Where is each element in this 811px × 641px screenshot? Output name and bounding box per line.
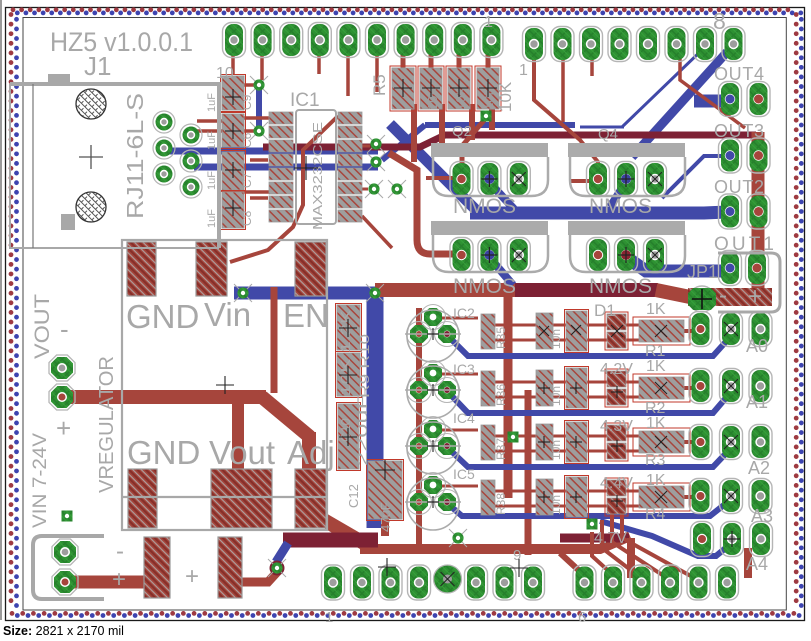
window left edge line bbox=[0, 0, 2, 620]
capacitor C15 row3 bbox=[481, 425, 495, 460]
resistor R8 bbox=[477, 68, 499, 109]
svg-text:R1: R1 bbox=[645, 343, 666, 360]
via V9 bbox=[268, 559, 286, 577]
svg-text:1uF: 1uF bbox=[206, 171, 218, 190]
resistor R9 bbox=[337, 305, 360, 350]
wire Vout pad riser red bbox=[232, 397, 244, 470]
resistor R36 bbox=[536, 370, 553, 406]
via V6 bbox=[388, 180, 406, 198]
resistor R1 bbox=[639, 320, 684, 342]
header OUT1 pads bbox=[719, 251, 742, 286]
svg-text:10n: 10n bbox=[549, 329, 563, 349]
resistor R6 bbox=[420, 68, 442, 109]
svg-text:OUT1: OUT1 bbox=[714, 234, 774, 255]
wire red A-bus vertical 1 bbox=[504, 292, 513, 498]
transistor IC5 pads bbox=[407, 490, 432, 515]
header A3 pads bbox=[689, 479, 712, 514]
svg-text:Vin: Vin bbox=[204, 296, 251, 333]
wire red Q1 pad link bbox=[426, 176, 456, 180]
svg-text:R4: R4 bbox=[645, 506, 666, 523]
header OUT2 pads bbox=[719, 194, 742, 229]
capacitor C16 row4 bbox=[481, 480, 495, 515]
header J2 top row pins 1-10 bbox=[223, 23, 246, 58]
connector VOUT pads bbox=[49, 355, 75, 381]
svg-text:+: + bbox=[56, 413, 71, 443]
svg-text:NMOS: NMOS bbox=[453, 275, 516, 298]
wire blue row A0 bbox=[448, 336, 731, 356]
header A2 pads bbox=[689, 425, 712, 460]
resistor R12 bbox=[566, 368, 587, 408]
diode D2 bbox=[607, 371, 626, 387]
red dotted keepout left bbox=[9, 15, 14, 611]
wire blue under C12 vertical bbox=[367, 292, 384, 528]
transistor IC5 outline bbox=[405, 478, 461, 530]
svg-text:10K: 10K bbox=[425, 87, 440, 110]
capacitor C8 bbox=[222, 192, 244, 228]
svg-text:Size: 2821 x 2170 mil: Size: 2821 x 2170 mil bbox=[3, 624, 124, 638]
svg-text:GND: GND bbox=[126, 298, 199, 335]
resistor R4 bbox=[639, 486, 684, 508]
wire red fan to bottom header bbox=[592, 504, 698, 582]
svg-text:1K: 1K bbox=[646, 415, 666, 432]
svg-text:R5: R5 bbox=[370, 74, 389, 96]
mark resistor crosses bbox=[427, 325, 667, 508]
op-amp IC1 right pads bbox=[338, 112, 362, 222]
wire red JP1 band bbox=[690, 290, 764, 297]
svg-text:GND: GND bbox=[127, 434, 200, 471]
wire red gate Q2 bbox=[534, 50, 598, 176]
transistor IC3 pads bbox=[407, 378, 432, 403]
wire red TO92 column vertical bbox=[416, 308, 422, 552]
svg-text:4.4V: 4.4V bbox=[600, 475, 633, 492]
svg-text:OUT3: OUT3 bbox=[714, 121, 764, 141]
regulator pad Vin bbox=[196, 242, 227, 296]
svg-text:4.7V: 4.7V bbox=[594, 530, 627, 547]
mark plus J1 center bbox=[79, 145, 103, 169]
wire red RJ11 thin links bbox=[195, 52, 269, 198]
transistor IC2 pads bbox=[407, 322, 432, 347]
header OUT4 pads bbox=[719, 82, 742, 117]
via V11 bbox=[234, 284, 252, 302]
resistor R14 bbox=[566, 477, 587, 517]
transistor IC2 outline bbox=[405, 310, 461, 362]
wire blue Q2 gate stub bbox=[610, 182, 626, 207]
pad JP1 screw bbox=[688, 286, 716, 312]
transistor Q1 pads bbox=[450, 162, 473, 197]
svg-text:Vout: Vout bbox=[209, 434, 275, 471]
capacitor C12 bbox=[368, 461, 402, 519]
transistor IC4 pads bbox=[407, 434, 432, 459]
svg-text:A0: A0 bbox=[746, 336, 768, 356]
wire blue B1 horizontal bbox=[234, 287, 378, 300]
svg-text:1K: 1K bbox=[646, 358, 666, 375]
wire blue mid horizontal right bbox=[580, 126, 624, 129]
capacitor C7 bbox=[222, 152, 244, 190]
wire blue upper horizontal bbox=[425, 122, 575, 128]
svg-text:8: 8 bbox=[713, 8, 726, 34]
wire VOUT thick red horizontal bbox=[66, 390, 266, 404]
capacitor C14 row2 bbox=[481, 371, 495, 406]
svg-text:IC2: IC2 bbox=[453, 305, 475, 321]
transistor Q3 pads bbox=[450, 238, 473, 273]
header J5 bottom row pins bbox=[573, 565, 596, 600]
transistor IC3 outline bbox=[405, 366, 461, 418]
svg-text:1uF: 1uF bbox=[206, 131, 218, 150]
wire blue OUT4 stub bbox=[694, 95, 726, 108]
regulator pad GND bottom bbox=[128, 469, 157, 528]
red dotted keepout top bbox=[13, 7, 796, 12]
svg-text:IC4: IC4 bbox=[453, 410, 475, 426]
svg-text:+: + bbox=[112, 566, 126, 593]
svg-text:C9: C9 bbox=[240, 94, 254, 110]
capacitor C13 row1 bbox=[481, 314, 495, 349]
VIN trace pad 2 bbox=[218, 537, 242, 598]
hole H1 bbox=[76, 89, 106, 119]
resistor R2 bbox=[639, 377, 684, 399]
header J4 bottom row pins 1-8 bbox=[322, 565, 345, 600]
svg-text:EN: EN bbox=[283, 297, 329, 334]
svg-text:R3: R3 bbox=[645, 452, 666, 469]
resistor R13 bbox=[566, 422, 587, 462]
transistor Q1 outline bbox=[431, 143, 548, 196]
wire red bottom verticals bbox=[631, 538, 748, 578]
wire blue row A1 bbox=[448, 392, 731, 413]
via V14 bbox=[587, 519, 598, 530]
svg-text:R36: R36 bbox=[494, 384, 508, 406]
resistor R10 bbox=[337, 353, 360, 396]
wire blue Q3 stub bbox=[489, 257, 513, 285]
wire maroon M1 top bbox=[263, 135, 756, 147]
svg-text:Q2: Q2 bbox=[452, 123, 472, 140]
wire red diagonal to bottom bbox=[310, 512, 367, 545]
wire red VIN link bbox=[240, 570, 279, 582]
via V7 bbox=[481, 111, 492, 122]
transistor Q4 outline bbox=[568, 221, 685, 272]
svg-text:IC5: IC5 bbox=[453, 466, 475, 482]
svg-text:10: 10 bbox=[216, 65, 234, 82]
hole H2 bbox=[76, 192, 106, 222]
svg-text:10n: 10n bbox=[549, 440, 563, 460]
red dotted keepout right bbox=[794, 15, 799, 611]
svg-text:IC1: IC1 bbox=[290, 90, 320, 111]
svg-text:OUT2: OUT2 bbox=[714, 177, 764, 197]
svg-text:A4: A4 bbox=[746, 554, 768, 574]
svg-text:1: 1 bbox=[325, 609, 333, 626]
connector J1 RJ11 pads bbox=[153, 111, 175, 133]
wire blue row A2 bbox=[448, 448, 731, 467]
svg-text:R37: R37 bbox=[494, 438, 508, 460]
capacitor C10 bbox=[338, 404, 359, 469]
wire blue Q1 gate stub bbox=[489, 182, 514, 209]
resistor R38 bbox=[536, 479, 553, 515]
wire maroon A4 band bbox=[560, 534, 629, 543]
regulator pad EN bbox=[295, 242, 326, 296]
svg-text:IC3: IC3 bbox=[453, 361, 475, 377]
svg-text:1uF: 1uF bbox=[206, 93, 218, 112]
wire red resistor risers top bbox=[403, 42, 488, 70]
JP1 bracket bbox=[718, 253, 780, 312]
via V5 bbox=[365, 180, 383, 198]
resistor R7 bbox=[448, 68, 470, 109]
resistor R3 bbox=[639, 431, 684, 453]
transistor Q3 outline bbox=[431, 221, 548, 272]
svg-text:-: - bbox=[719, 282, 727, 309]
svg-text:220uF: 220uF bbox=[354, 394, 370, 466]
svg-text:JP1: JP1 bbox=[687, 262, 718, 282]
wire red A-bus vertical 2 bbox=[525, 390, 532, 555]
svg-text:9: 9 bbox=[513, 547, 521, 564]
wire blue diag to via bbox=[382, 125, 425, 160]
transistor Q2 outline bbox=[568, 143, 685, 196]
capacitor C9 bbox=[222, 76, 244, 110]
svg-text:C8: C8 bbox=[240, 210, 254, 226]
via V13 bbox=[508, 432, 519, 443]
svg-text:OUT4: OUT4 bbox=[714, 64, 764, 84]
header A4 pads bbox=[691, 522, 714, 557]
wire thin blue diag to header pin bbox=[622, 48, 704, 127]
wire blue A4 path bbox=[600, 521, 733, 556]
pad big round bottom bbox=[434, 565, 462, 593]
svg-text:47uF: 47uF bbox=[378, 502, 393, 532]
blue dotted keepout right bbox=[799, 19, 804, 613]
blue dotted keepout bottom bbox=[17, 613, 801, 618]
VIN trace pad 1 bbox=[144, 537, 170, 598]
svg-text:Adj: Adj bbox=[287, 434, 335, 471]
svg-text:6: 6 bbox=[578, 609, 586, 626]
capacitor C6 bbox=[222, 114, 244, 147]
svg-text:10n: 10n bbox=[549, 495, 563, 515]
transistor Q2 pads bbox=[587, 162, 610, 197]
wire maroon NMOS row2 band bbox=[375, 283, 517, 297]
wire red gate Q1 bbox=[462, 118, 486, 172]
wire blue NMOS horizontal to OUT2 bbox=[470, 212, 727, 213]
via V10 bbox=[366, 284, 384, 302]
svg-text:C7: C7 bbox=[240, 172, 254, 188]
wire red header stubs bbox=[262, 54, 745, 248]
wire red OUT right vertical bbox=[752, 132, 765, 290]
via V12 bbox=[449, 529, 467, 547]
svg-text:-: - bbox=[60, 314, 69, 344]
diode D3 bbox=[607, 425, 626, 441]
svg-text:MAX3232CSE: MAX3232CSE bbox=[310, 122, 325, 230]
resistor R11 bbox=[566, 311, 587, 351]
svg-text:HZ5 v1.0.0.1: HZ5 v1.0.0.1 bbox=[50, 27, 193, 57]
connector J1 RJ11 outline bbox=[10, 84, 219, 248]
svg-text:1: 1 bbox=[484, 14, 493, 31]
svg-text:D1: D1 bbox=[594, 301, 616, 320]
wire thin blue OUT3 bbox=[662, 156, 726, 198]
svg-text:+: + bbox=[185, 563, 199, 590]
svg-text:10K: 10K bbox=[496, 81, 515, 112]
svg-text:R35: R35 bbox=[494, 327, 508, 349]
transistor IC4 outline bbox=[405, 422, 461, 474]
svg-text:10n: 10n bbox=[549, 386, 563, 406]
header A1 pads bbox=[689, 369, 712, 404]
svg-text:VREGULATOR: VREGULATOR bbox=[96, 356, 118, 493]
wire maroon band bottom left bbox=[283, 533, 378, 548]
svg-text:A1: A1 bbox=[746, 392, 768, 412]
svg-text:A2: A2 bbox=[748, 458, 770, 478]
svg-text:R2: R2 bbox=[645, 400, 666, 417]
via V4 bbox=[367, 153, 385, 171]
wire red left of NMOS1 bbox=[389, 153, 457, 254]
resistor R5 bbox=[392, 68, 414, 109]
regulator pad GND top bbox=[127, 242, 156, 296]
connector VIN bracket bbox=[33, 536, 104, 599]
wire red bottom horizontal bbox=[360, 536, 630, 549]
svg-text:4.2V: 4.2V bbox=[600, 361, 633, 378]
svg-text:NMOS: NMOS bbox=[589, 195, 652, 218]
via V8 bbox=[62, 511, 73, 522]
regulator outline bbox=[122, 240, 327, 530]
svg-text:Q4: Q4 bbox=[598, 126, 618, 143]
wire EN riser thick red vertical bbox=[302, 432, 316, 518]
regulator pad Adj bbox=[295, 469, 326, 528]
blue dotted keepout left bbox=[14, 19, 19, 613]
svg-text:-: - bbox=[116, 538, 124, 565]
svg-text:VIN 7-24V: VIN 7-24V bbox=[30, 433, 51, 528]
diode D1 bbox=[607, 314, 626, 330]
svg-text:1K: 1K bbox=[646, 301, 666, 318]
resistor R37 bbox=[536, 424, 553, 460]
header A0 pads bbox=[689, 312, 712, 347]
svg-text:C6: C6 bbox=[240, 132, 254, 148]
via V2 bbox=[250, 122, 268, 140]
op-amp IC1 outline bbox=[296, 110, 336, 224]
wire red resistor tails down bbox=[414, 104, 492, 162]
wire blue RJ11 row1 bbox=[167, 148, 378, 155]
svg-text:A3: A3 bbox=[751, 506, 773, 526]
blue dotted keepout top bbox=[17, 10, 801, 15]
wire blue row A3 bbox=[448, 501, 729, 516]
wire blue IC1 to NMOS big diagonal bbox=[390, 124, 480, 214]
wire blue OUT1 from Q4 bbox=[626, 257, 722, 271]
svg-text:C10: C10 bbox=[338, 418, 353, 442]
svg-text:VOUT: VOUT bbox=[31, 294, 54, 359]
JP1 hatched red zone bbox=[688, 288, 772, 306]
svg-text:J1: J1 bbox=[84, 51, 111, 81]
wire red R to A pads bbox=[684, 331, 700, 497]
svg-text:4.3V: 4.3V bbox=[600, 418, 633, 435]
wire red IC1 diagonal bbox=[230, 116, 338, 262]
svg-text:R38: R38 bbox=[494, 493, 508, 515]
diode D4 bbox=[607, 480, 626, 496]
svg-text:+: + bbox=[748, 283, 762, 310]
svg-text:NMOS: NMOS bbox=[453, 195, 516, 218]
via V3 bbox=[367, 135, 385, 153]
header J3 top row pins 1-8 bbox=[523, 27, 546, 62]
wire blue diag to OUT4 bbox=[632, 52, 727, 157]
regulator pad Vout bbox=[211, 469, 272, 528]
wire blue RJ11 row2 bbox=[194, 164, 378, 171]
wire blue via link bbox=[256, 88, 262, 128]
resistor R35 bbox=[536, 313, 553, 349]
svg-text:1K: 1K bbox=[646, 472, 666, 489]
svg-text:10K 1.2K: 10K 1.2K bbox=[338, 309, 353, 396]
wire blue diag to via bottom left bbox=[276, 543, 288, 562]
svg-text:R9 R10: R9 R10 bbox=[357, 334, 372, 398]
mark component crosses bbox=[216, 79, 528, 577]
svg-text:C12: C12 bbox=[346, 484, 361, 508]
svg-text:NMOS: NMOS bbox=[589, 275, 652, 298]
wire red bottom left diag bbox=[560, 553, 586, 577]
connector VIN pads bbox=[52, 539, 78, 565]
wire red row links A0 bbox=[495, 325, 640, 506]
transistor Q4 pads bbox=[587, 238, 610, 273]
svg-text:1uF: 1uF bbox=[206, 209, 218, 228]
op-amp IC1 left pads bbox=[269, 112, 293, 222]
svg-text:RJ11-6L-S: RJ11-6L-S bbox=[122, 93, 148, 219]
svg-text:1: 1 bbox=[519, 62, 528, 79]
red dotted keepout bottom bbox=[12, 611, 800, 616]
wire VIN thick red to pad bbox=[66, 576, 148, 589]
via V1 bbox=[250, 76, 268, 94]
header OUT3 pads bbox=[719, 138, 742, 173]
svg-text:10K: 10K bbox=[453, 87, 468, 110]
